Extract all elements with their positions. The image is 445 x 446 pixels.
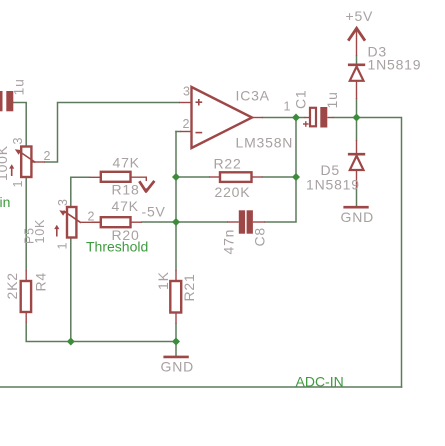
svg-text:3: 3	[11, 138, 25, 145]
svg-text:C1: C1	[293, 90, 309, 110]
svg-text:R22: R22	[214, 156, 242, 172]
svg-text:10K: 10K	[33, 219, 47, 244]
svg-text:2: 2	[183, 117, 190, 131]
svg-text:GND: GND	[161, 359, 195, 375]
svg-text:ADC-IN: ADC-IN	[296, 373, 344, 389]
svg-text:R18: R18	[112, 182, 140, 198]
svg-text:-5V: -5V	[142, 204, 166, 220]
svg-text:R21: R21	[181, 273, 197, 301]
svg-text:1: 1	[56, 243, 70, 250]
svg-text:LM358N: LM358N	[236, 135, 294, 151]
svg-text:1u: 1u	[11, 78, 27, 95]
svg-text:47K: 47K	[112, 198, 139, 214]
svg-text:47n: 47n	[221, 229, 237, 255]
svg-text:1N5819: 1N5819	[306, 177, 360, 193]
svg-text:C8: C8	[252, 227, 268, 247]
svg-text:+5V: +5V	[346, 8, 374, 24]
svg-text:3: 3	[56, 199, 70, 206]
svg-text:1: 1	[284, 100, 291, 114]
svg-text:in: in	[0, 194, 10, 210]
svg-text:1u: 1u	[324, 91, 340, 108]
svg-text:1N5819: 1N5819	[368, 57, 422, 73]
svg-text:47K: 47K	[113, 155, 140, 171]
svg-text:100K: 100K	[0, 145, 10, 181]
svg-text:GND: GND	[341, 209, 375, 225]
svg-text:2: 2	[44, 149, 51, 163]
svg-text:R4: R4	[33, 272, 49, 292]
svg-text:IC3A: IC3A	[236, 88, 270, 104]
svg-text:220K: 220K	[215, 184, 251, 200]
svg-text:1K: 1K	[155, 271, 171, 290]
svg-text:3: 3	[183, 85, 190, 99]
svg-text:Threshold: Threshold	[86, 239, 148, 255]
svg-text:2K2: 2K2	[4, 272, 20, 299]
svg-text:2: 2	[88, 210, 95, 224]
svg-text:1: 1	[11, 181, 25, 188]
